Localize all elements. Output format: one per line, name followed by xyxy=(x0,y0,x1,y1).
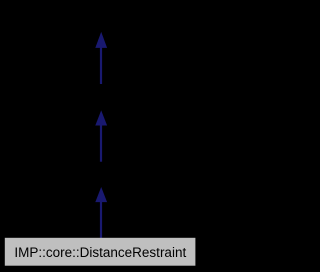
svg-text:IMP::core::DistanceRestraint: IMP::core::DistanceRestraint xyxy=(14,245,186,260)
